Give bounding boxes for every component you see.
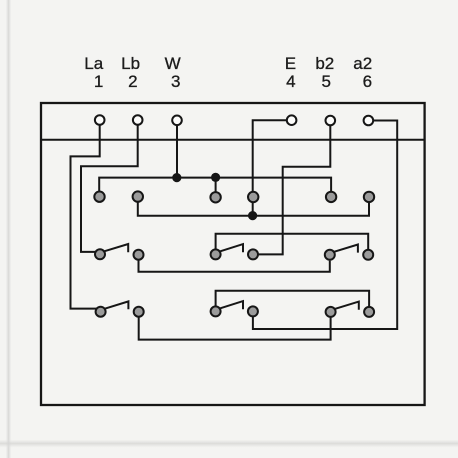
switch S2 lever — [220, 244, 243, 252]
switch S1 throw contact — [134, 250, 144, 260]
wire W: terminal 3 down to junction — [176, 125, 178, 178]
wire W bus: junction line to contacts 1a and 5a — [99, 178, 331, 192]
switch S4 pole contact — [96, 307, 106, 317]
terminal 4 — [287, 115, 297, 125]
svg-text:a2: a2 — [353, 54, 372, 73]
svg-text:5: 5 — [321, 72, 330, 91]
terminal 3 — [172, 116, 182, 126]
junction dot bus/3a — [211, 173, 220, 182]
enclosure box — [41, 103, 425, 405]
switch S3 pole contact — [325, 250, 335, 260]
svg-text:W: W — [165, 54, 181, 73]
svg-text:Lb: Lb — [121, 54, 140, 73]
contact 4a — [248, 192, 258, 202]
junction dot W/bus — [172, 173, 181, 182]
switch S5 throw contact — [248, 306, 258, 316]
wire E: terminal 4 left then down through contact 4a — [253, 120, 287, 215]
svg-text:La: La — [84, 54, 103, 73]
switch S3 throw contact — [363, 250, 373, 260]
switch S1 lever — [105, 244, 129, 252]
switch S5 pole contact — [211, 306, 221, 316]
switch S5 lever — [220, 301, 243, 309]
contact 5a — [326, 192, 336, 202]
switch S1 pole contact — [95, 249, 105, 259]
terminal 1 — [95, 115, 105, 125]
wire S4 to S6: row2 left switch output down and right up into S6 — [139, 317, 331, 339]
svg-text:3: 3 — [171, 72, 180, 91]
wire b2: terminal 5 down, left, down to switch S2 contact — [258, 125, 330, 254]
switch S6 pole contact — [326, 307, 336, 317]
wire junction drop to contact 3a — [215, 178, 217, 193]
svg-text:6: 6 — [363, 72, 372, 91]
terminal strip line — [41, 139, 425, 141]
switch S6 throw contact — [364, 307, 374, 317]
switch S2 pole contact — [211, 249, 221, 259]
switch S4 lever — [105, 301, 128, 309]
contact 1a — [94, 192, 104, 202]
wire S1 to S3: row1 left switch output down and right up into S3 — [139, 260, 330, 271]
wire E bus: contact 2a to contact 6a — [138, 202, 369, 216]
wire S2 to S3: row1 middle pole up and right down into S3 second contact — [216, 234, 369, 249]
contact 6a — [364, 192, 374, 202]
switch S4 throw contact — [134, 307, 144, 317]
svg-text:b2: b2 — [315, 54, 334, 73]
wire Lb: terminal 2 down, left, down to switch row 1 — [81, 125, 138, 252]
switch S6 lever — [335, 302, 359, 310]
svg-text:4: 4 — [286, 72, 295, 91]
svg-text:1: 1 — [94, 72, 103, 91]
svg-text:E: E — [285, 54, 296, 73]
wire S5 to S6: row2 middle pole up and right down into S6 second contact — [216, 291, 370, 307]
contact 2a — [133, 191, 143, 201]
switch S3 lever — [334, 245, 358, 253]
terminal 2 — [133, 115, 143, 125]
svg-text:2: 2 — [128, 72, 137, 91]
junction dot E/bus — [248, 211, 257, 220]
terminal 6 — [364, 116, 374, 126]
wire a2: terminal 6 right, down, left to switch S5 contact — [253, 121, 397, 330]
wire La: terminal 1 down, left, down to switch row 2 — [71, 125, 100, 309]
switch S2 throw contact — [248, 249, 258, 259]
terminal 5 — [326, 116, 336, 126]
contact 3a — [210, 192, 220, 202]
